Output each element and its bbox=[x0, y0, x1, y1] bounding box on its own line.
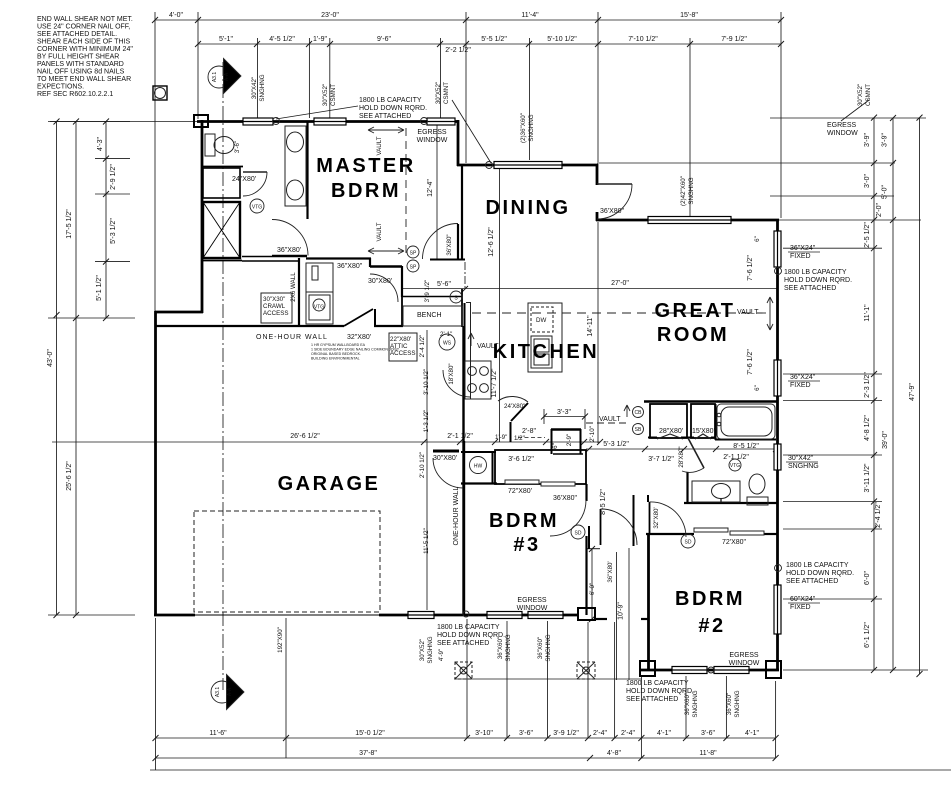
svg-text:6'-0": 6'-0" bbox=[589, 583, 596, 595]
bench west wall bbox=[401, 289, 403, 327]
svg-text:30"X42": 30"X42" bbox=[788, 455, 814, 462]
window label 30x52 csmnt rotated B bbox=[435, 82, 450, 104]
DOORS bbox=[243, 172, 764, 545]
kitchen 3-3 ext verticals bbox=[543, 409, 545, 424]
left edge dims rotated bbox=[47, 137, 117, 491]
svg-text:7'-6 1/2": 7'-6 1/2" bbox=[747, 349, 754, 375]
master 12-4 extension line bbox=[436, 124, 438, 259]
stove burner 4 bbox=[480, 384, 489, 393]
bath sink oval bbox=[712, 484, 731, 499]
master door leaf 36x80 bbox=[272, 255, 307, 257]
door leaf 32x80 in one-hour wall bbox=[344, 309, 373, 326]
leader line to master window circle bbox=[276, 106, 358, 119]
window 36x60 bdrm3 south A bbox=[487, 612, 522, 619]
egress window bdrm3 bbox=[517, 597, 548, 612]
svg-text:36"X60": 36"X60" bbox=[684, 693, 691, 715]
kitchen counter top edge bbox=[466, 302, 471, 304]
WINDOWS bbox=[243, 118, 781, 674]
svg-text:VAULT: VAULT bbox=[376, 222, 383, 241]
exterior west jog wall bbox=[155, 311, 203, 314]
stove burner 1 bbox=[468, 367, 477, 376]
exterior garage west wall bbox=[154, 311, 157, 616]
hold-down circle bdrm2 window bbox=[708, 667, 714, 673]
svg-text:4'-1": 4'-1" bbox=[657, 730, 671, 737]
window 30x42 snghng master north A bbox=[243, 118, 273, 125]
svg-text:VTG: VTG bbox=[314, 305, 324, 311]
circle SD bdrm3 bbox=[571, 525, 585, 539]
left dim vertical lines bbox=[56, 122, 58, 616]
svg-text:2'-5 1/2": 2'-5 1/2" bbox=[864, 222, 871, 248]
svg-text:36"X60": 36"X60" bbox=[726, 693, 733, 715]
vault arrow master bottom bbox=[368, 248, 404, 254]
kitchen 3-3 dim line bbox=[544, 416, 585, 418]
svg-text:HOLD DOWN RQRD.: HOLD DOWN RQRD. bbox=[784, 277, 852, 284]
bdrm3 window labels rotated bbox=[419, 634, 552, 663]
svg-text:11'-1": 11'-1" bbox=[864, 304, 871, 322]
egress window bdrm2 bbox=[729, 652, 760, 667]
svg-text:3'-9 1/2": 3'-9 1/2" bbox=[424, 280, 431, 303]
svg-text:VTG: VTG bbox=[730, 463, 740, 469]
door 36x80 dining-hall: arc bbox=[423, 224, 459, 260]
exterior dining north wall bbox=[457, 164, 598, 167]
svg-text:ORIGINAL BASED BEDROCK.: ORIGINAL BASED BEDROCK. bbox=[311, 352, 361, 356]
door 30x80 laundry: arc bbox=[433, 458, 463, 488]
vault labels master bbox=[376, 136, 383, 241]
svg-text:A-A: A-A bbox=[224, 72, 230, 81]
svg-text:A-A: A-A bbox=[227, 687, 233, 696]
hold-down circle great room bbox=[775, 268, 782, 275]
svg-text:SHEAR EACH SIDE OF THIS: SHEAR EACH SIDE OF THIS bbox=[37, 39, 131, 46]
bath toilet bowl bbox=[749, 474, 765, 494]
window (2)42x60 dining south bbox=[648, 217, 731, 224]
svg-text:12'-4": 12'-4" bbox=[427, 179, 434, 197]
svg-text:5'-5 1/2": 5'-5 1/2" bbox=[481, 36, 507, 43]
bottom row A dims bbox=[209, 730, 759, 737]
svg-text:SNGHNG: SNGHNG bbox=[545, 634, 552, 661]
svg-text:ROOM: ROOM bbox=[657, 324, 729, 346]
left extension lines from wall bbox=[50, 121, 198, 123]
svg-text:8'-5 1/2": 8'-5 1/2" bbox=[600, 489, 607, 515]
bdrm3 east wall upper bbox=[585, 484, 587, 501]
bdrm3 closet bypass doors bbox=[505, 480, 575, 486]
svg-text:VAULT: VAULT bbox=[737, 309, 759, 316]
door 36x80 hall: arc bbox=[601, 509, 638, 545]
svg-text:36"X60": 36"X60" bbox=[537, 637, 544, 659]
svg-text:1800 LB CAPACITY: 1800 LB CAPACITY bbox=[626, 680, 689, 687]
circle WS hall bbox=[439, 334, 455, 350]
svg-text:30"X52": 30"X52" bbox=[322, 84, 329, 106]
exterior great room east wall bbox=[776, 219, 779, 671]
svg-text:EXPECTIONS.: EXPECTIONS. bbox=[37, 84, 84, 91]
svg-text:SP: SP bbox=[410, 251, 417, 257]
svg-text:END WALL SHEAR NOT MET.: END WALL SHEAR NOT MET. bbox=[37, 16, 133, 23]
bath vanity bbox=[692, 481, 740, 502]
entry 6-0 dim line bbox=[591, 549, 593, 619]
svg-text:A3.1: A3.1 bbox=[215, 687, 221, 698]
svg-text:ATTIC: ATTIC bbox=[390, 343, 408, 350]
bath/bdrm2 closet wall bbox=[646, 533, 694, 535]
svg-text:4'-8": 4'-8" bbox=[607, 750, 621, 757]
svg-text:2'-1 1/2": 2'-1 1/2" bbox=[447, 433, 473, 440]
svg-text:BDRM: BDRM bbox=[331, 180, 401, 202]
entry front wall stub right bbox=[641, 618, 649, 620]
hold down note great room bbox=[784, 269, 852, 292]
svg-text:3'-10": 3'-10" bbox=[475, 730, 493, 737]
svg-text:1 SIDE BOUNDARY EDGE NAILING C: 1 SIDE BOUNDARY EDGE NAILING COMMON JOIS… bbox=[311, 348, 400, 352]
hall dim extension x=427 bbox=[426, 330, 428, 610]
top extension lines bbox=[154, 12, 156, 312]
attic access box bbox=[389, 333, 417, 361]
svg-text:28'X80": 28'X80" bbox=[678, 446, 685, 467]
svg-text:23'-0": 23'-0" bbox=[321, 12, 339, 19]
master vanity counter bbox=[285, 126, 306, 206]
stove burner 2 bbox=[480, 367, 489, 376]
window label (2)36x60 snghng rotated bbox=[520, 113, 535, 143]
svg-text:SNGHNG: SNGHNG bbox=[427, 636, 434, 663]
fridge nook east wall bbox=[580, 429, 582, 454]
svg-text:ACCESS: ACCESS bbox=[390, 350, 415, 357]
svg-text:1'-3 1/2": 1'-3 1/2" bbox=[423, 410, 430, 433]
door 30x80 master closet: arc bbox=[370, 274, 398, 302]
bifold zigzag closet B bbox=[695, 434, 711, 439]
section marker A-A top: circle bbox=[208, 66, 230, 88]
garage door header line bbox=[194, 614, 380, 616]
one-hour wall garage east bbox=[462, 326, 464, 615]
top row2 dims bbox=[219, 36, 747, 54]
svg-text:6'-0": 6'-0" bbox=[864, 571, 871, 585]
svg-text:7'-10 1/2": 7'-10 1/2" bbox=[628, 36, 658, 43]
svg-text:BUILDING ENVIRONMENTAL: BUILDING ENVIRONMENTAL bbox=[311, 357, 360, 361]
svg-text:30"X52": 30"X52" bbox=[419, 639, 426, 661]
svg-text:SNGHNG: SNGHNG bbox=[688, 177, 695, 204]
svg-text:BDRM: BDRM bbox=[675, 588, 745, 610]
svg-text:SEE ATTACHED: SEE ATTACHED bbox=[437, 640, 489, 647]
vault arrow great room vertical bbox=[767, 297, 773, 330]
svg-text:3'-3": 3'-3" bbox=[557, 409, 571, 416]
svg-text:FIXED: FIXED bbox=[790, 253, 811, 260]
ticks on hall dim line bbox=[586, 446, 779, 452]
svg-text:6": 6" bbox=[754, 385, 761, 391]
exterior west wall bath bbox=[201, 120, 204, 313]
entry door leaf bbox=[600, 509, 602, 545]
svg-text:SP: SP bbox=[410, 265, 417, 271]
window 36x60 bdrm3 south B bbox=[528, 612, 563, 619]
svg-text:(2)42"X60": (2)42"X60" bbox=[680, 176, 687, 206]
garage 26-6 dim line bbox=[52, 441, 600, 443]
svg-text:32"X80': 32"X80' bbox=[653, 507, 660, 528]
svg-text:36'X80": 36'X80" bbox=[600, 208, 625, 215]
kitchen west counter line B bbox=[470, 302, 472, 360]
svg-text:36"X80": 36"X80" bbox=[337, 263, 363, 270]
laundry top wall bbox=[461, 451, 496, 453]
svg-text:5'-1": 5'-1" bbox=[219, 36, 233, 43]
svg-text:DINING: DINING bbox=[486, 197, 571, 219]
svg-text:4'-1": 4'-1" bbox=[745, 730, 759, 737]
svg-text:VTG: VTG bbox=[252, 205, 262, 211]
hold-down circle bdrm2 east bbox=[775, 565, 782, 572]
svg-text:36"X80': 36"X80' bbox=[277, 247, 301, 254]
svg-text:SEE ATTACHED: SEE ATTACHED bbox=[786, 578, 838, 585]
svg-text:1'-9": 1'-9" bbox=[313, 36, 327, 43]
circle CB entry bbox=[633, 407, 644, 418]
2x6 wall hall bbox=[298, 258, 300, 327]
entry hall west wall stub bbox=[588, 526, 590, 549]
svg-text:1 HR GYPSUM WALLBOARD EA: 1 HR GYPSUM WALLBOARD EA bbox=[311, 343, 366, 347]
label 30x42 snghng bath bbox=[786, 455, 819, 470]
bottom border line bbox=[150, 769, 951, 771]
window 36x24 fixed great room east lower bbox=[774, 360, 781, 396]
svg-text:30"X52": 30"X52" bbox=[857, 84, 864, 106]
hold down note top bbox=[359, 97, 427, 120]
svg-text:4'-0": 4'-0" bbox=[169, 12, 183, 19]
hold-down X box porch right bbox=[577, 662, 595, 679]
section cut dash-dot line through garage bbox=[222, 62, 224, 690]
svg-text:BENCH: BENCH bbox=[417, 312, 442, 319]
svg-text:5'-0": 5'-0" bbox=[882, 185, 889, 199]
svg-text:HOLD DOWN RQRD.: HOLD DOWN RQRD. bbox=[359, 105, 427, 112]
svg-text:2X6 WALL: 2X6 WALL bbox=[290, 272, 297, 302]
bottom tick slashes bbox=[153, 735, 779, 761]
fridge nook bottom bbox=[553, 453, 583, 455]
section marker labels bbox=[212, 72, 233, 698]
svg-text:2'-1 1/2": 2'-1 1/2" bbox=[723, 454, 749, 461]
svg-text:30"X80': 30"X80' bbox=[433, 455, 457, 462]
right tick slashes bbox=[871, 115, 923, 677]
svg-text:SNGHNG: SNGHNG bbox=[692, 690, 699, 717]
furnace inner lower rect bbox=[309, 295, 330, 320]
right dim vertical lines bbox=[873, 118, 875, 670]
svg-text:7'-6 1/2": 7'-6 1/2" bbox=[747, 255, 754, 281]
exterior garage south wall left bbox=[154, 614, 195, 617]
stove burner 3 bbox=[468, 384, 477, 393]
svg-text:SNGHNG: SNGHNG bbox=[259, 74, 266, 101]
svg-text:#3: #3 bbox=[513, 534, 540, 556]
exterior south wall garage-to-bdrm3 bbox=[379, 614, 408, 617]
dim ticks on 442 line bbox=[421, 439, 603, 445]
door 36x80 dining exterior: arc bbox=[597, 184, 632, 219]
svg-text:6'-1 1/2": 6'-1 1/2" bbox=[864, 622, 871, 648]
svg-text:3'-9": 3'-9" bbox=[864, 133, 871, 147]
svg-text:4'-3": 4'-3" bbox=[97, 137, 104, 151]
svg-text:18'X80": 18'X80" bbox=[448, 363, 455, 384]
exterior dining east wall upper bbox=[596, 164, 599, 185]
svg-text:MASTER: MASTER bbox=[316, 155, 415, 177]
svg-text:HOLD DOWN RQRD.: HOLD DOWN RQRD. bbox=[437, 632, 505, 639]
svg-text:(2)36"X60": (2)36"X60" bbox=[520, 113, 527, 143]
svg-text:72"X80': 72"X80' bbox=[508, 488, 532, 495]
toilet master: bowl bbox=[214, 137, 234, 154]
closet east wall bbox=[401, 266, 403, 297]
svg-text:43'-0": 43'-0" bbox=[47, 349, 54, 367]
svg-text:BY FULL HEIGHT SHEAR: BY FULL HEIGHT SHEAR bbox=[37, 54, 119, 61]
closet bottom wall bbox=[402, 296, 462, 298]
door 24x80 linen: arc bbox=[243, 172, 267, 196]
svg-text:USE 24" CORNER NAIL OFF,: USE 24" CORNER NAIL OFF, bbox=[37, 24, 130, 31]
hall top wall line a bbox=[242, 256, 272, 258]
window 30x52 csmnt master north B bbox=[314, 118, 346, 125]
svg-text:2'-4 1/2": 2'-4 1/2" bbox=[419, 335, 426, 358]
bath west wall lower bbox=[686, 472, 688, 504]
exterior bdrm3 south wall mid bbox=[521, 614, 529, 617]
window 36x60 bdrm2 south A bbox=[672, 667, 707, 674]
svg-text:36"X24": 36"X24" bbox=[790, 245, 816, 252]
bottom row B dims bbox=[359, 750, 717, 757]
one-hour wall garage north bbox=[155, 325, 344, 327]
svg-text:5'-10 1/2": 5'-10 1/2" bbox=[547, 36, 577, 43]
circle HW laundry bbox=[470, 457, 487, 474]
svg-text:SNGHNG: SNGHNG bbox=[734, 690, 741, 717]
toilet master: tank bbox=[205, 134, 215, 156]
svg-text:4'-5 1/2": 4'-5 1/2" bbox=[269, 36, 295, 43]
svg-text:VAULT: VAULT bbox=[376, 136, 383, 155]
label egress top right bbox=[827, 122, 858, 137]
top row tick slashes bbox=[152, 17, 784, 47]
exterior jog at master NE bbox=[457, 120, 460, 166]
svg-text:3'-6": 3'-6" bbox=[701, 730, 715, 737]
svg-text:60"X24": 60"X24" bbox=[790, 596, 816, 603]
dining west wall bbox=[461, 164, 463, 260]
svg-text:GARAGE: GARAGE bbox=[278, 473, 381, 495]
kitchen 3-3 ext ticks bbox=[541, 414, 588, 420]
hold down note bdrm2 east bbox=[786, 562, 854, 585]
svg-text:WINDOW: WINDOW bbox=[729, 660, 760, 667]
svg-text:KITCHEN: KITCHEN bbox=[493, 341, 599, 363]
svg-text:3'-11 1/2": 3'-11 1/2" bbox=[864, 463, 871, 493]
circle VTG master bath bbox=[250, 199, 264, 213]
tub front wall bbox=[715, 439, 776, 441]
linen closet bbox=[203, 168, 240, 198]
exterior dining south wall bbox=[596, 219, 779, 222]
svg-text:24'X80": 24'X80" bbox=[504, 403, 525, 410]
door 36x80 bdrm3: arc bbox=[550, 500, 586, 536]
master sink 1 bbox=[287, 132, 304, 152]
svg-text:2'-9": 2'-9" bbox=[566, 434, 573, 446]
svg-text:CSMNT: CSMNT bbox=[443, 82, 450, 104]
svg-text:30"X52": 30"X52" bbox=[435, 82, 442, 104]
svg-text:2'-10": 2'-10" bbox=[589, 426, 596, 442]
svg-text:11'-5 1/2": 11'-5 1/2" bbox=[423, 528, 430, 554]
svg-text:ONE-HOUR WALL: ONE-HOUR WALL bbox=[453, 486, 460, 545]
wall below shower bbox=[202, 260, 242, 262]
leader 30x52 csmnt #2 bbox=[841, 100, 869, 121]
svg-text:2'-8": 2'-8" bbox=[522, 428, 536, 435]
bdrm2 closet wall right stub bbox=[764, 533, 778, 535]
svg-text:28"X80': 28"X80' bbox=[659, 428, 683, 435]
hall dim line y449 bbox=[586, 448, 781, 450]
shower enclosure bbox=[203, 202, 240, 258]
svg-text:24"X80': 24"X80' bbox=[232, 176, 256, 183]
svg-text:2'-1": 2'-1" bbox=[440, 331, 452, 338]
hold down note bdrm2 south bbox=[626, 680, 694, 703]
window 30x52 csmnt master north C egress bbox=[427, 118, 455, 125]
svg-text:5'-6": 5'-6" bbox=[437, 281, 451, 288]
tub bdrm2 bath bbox=[717, 404, 775, 439]
svg-text:1800 LB CAPACITY: 1800 LB CAPACITY bbox=[784, 269, 847, 276]
window 60x24 fixed bdrm2 east bbox=[774, 585, 781, 634]
window 36x60 bdrm2 south B bbox=[714, 667, 749, 674]
svg-text:2'-10 1/2": 2'-10 1/2" bbox=[419, 452, 426, 478]
svg-text:1'-9": 1'-9" bbox=[495, 434, 507, 441]
svg-text:WINDOW: WINDOW bbox=[827, 130, 858, 137]
svg-text:8'-5 1/2": 8'-5 1/2" bbox=[733, 443, 759, 450]
window 30x52 hall south bbox=[408, 612, 434, 619]
exterior bdrm3 south wall right bbox=[562, 614, 579, 617]
svg-text:SNGHNG: SNGHNG bbox=[788, 463, 819, 470]
exterior dining east wall lower stub bbox=[596, 212, 599, 221]
bottom extension lines bbox=[155, 618, 157, 770]
pantry door arc bbox=[498, 396, 528, 402]
top row1 dims bbox=[169, 12, 698, 19]
door master bedroom 36x80: arc bbox=[272, 220, 308, 256]
kitchen sink double bbox=[531, 336, 552, 368]
master sink 2 bbox=[287, 180, 304, 200]
door 24x80 linen: leaf bbox=[243, 171, 267, 173]
svg-text:26'-6 1/2": 26'-6 1/2" bbox=[290, 433, 320, 440]
one-hour wall right of door bbox=[374, 325, 403, 327]
svg-text:72'X80": 72'X80" bbox=[722, 539, 747, 546]
svg-text:3'-9 1/2": 3'-9 1/2" bbox=[553, 730, 579, 737]
furnace divider bbox=[306, 291, 333, 293]
bdrm2 window labels rotated bbox=[684, 690, 741, 717]
bdrm2 SW corner post bbox=[640, 661, 655, 676]
right tick horizontals bbox=[770, 117, 926, 119]
svg-text:32"X80': 32"X80' bbox=[347, 334, 371, 341]
hall dims rotated column bbox=[419, 335, 445, 661]
svg-text:2'-4 1/2": 2'-4 1/2" bbox=[875, 502, 882, 528]
svg-text:SEE ATTACHED DETAIL.: SEE ATTACHED DETAIL. bbox=[37, 31, 117, 38]
leader line to hold-down at dining NW bbox=[452, 100, 491, 163]
hold-down circle bdrm3 window bbox=[463, 611, 469, 617]
vault dashed line great room bbox=[472, 312, 770, 314]
laundry pocket door bar bbox=[433, 450, 459, 453]
svg-text:30"X80': 30"X80' bbox=[368, 278, 392, 285]
dishwasher dashed bbox=[531, 307, 553, 332]
svg-text:5'-1 1/2": 5'-1 1/2" bbox=[96, 275, 103, 301]
entry 10-9 ext lines bbox=[616, 552, 618, 680]
exterior bdrm2 west wall bbox=[647, 534, 650, 671]
bdrm2 SE corner post bbox=[766, 661, 781, 678]
svg-text:1800 LB CAPACITY: 1800 LB CAPACITY bbox=[786, 562, 849, 569]
vault dashed line entry bbox=[586, 422, 630, 424]
svg-text:EGRESS: EGRESS bbox=[729, 652, 759, 659]
svg-text:4'-8 1/2": 4'-8 1/2" bbox=[864, 415, 871, 441]
svg-text:WINDOW: WINDOW bbox=[517, 605, 548, 612]
furnace cabinet outer bbox=[306, 263, 333, 324]
svg-text:TO MEET END WALL SHEAR: TO MEET END WALL SHEAR bbox=[37, 76, 131, 83]
door 28x80 entry diag leaf bbox=[688, 438, 704, 468]
svg-text:4'-9": 4'-9" bbox=[438, 649, 445, 661]
circle S bench bbox=[450, 291, 462, 303]
svg-text:15'X80": 15'X80" bbox=[692, 428, 717, 435]
shear note block bbox=[37, 16, 133, 98]
svg-text:27'-0": 27'-0" bbox=[611, 280, 629, 287]
svg-text:CSMNT: CSMNT bbox=[330, 84, 337, 106]
svg-text:25'-6 1/2": 25'-6 1/2" bbox=[66, 461, 73, 491]
svg-text:30"X30": 30"X30" bbox=[263, 296, 285, 303]
svg-text:SEE ATTACHED: SEE ATTACHED bbox=[359, 113, 411, 120]
circle SB entry bbox=[633, 424, 644, 435]
dining door leaf 36x80 bbox=[457, 224, 459, 259]
svg-text:2'-0": 2'-0" bbox=[876, 203, 883, 217]
toilet room south wall bbox=[202, 166, 243, 168]
bdrm3 north wall bbox=[461, 482, 497, 484]
vault arrow master top bbox=[368, 127, 404, 133]
svg-text:2'-2 1/2": 2'-2 1/2" bbox=[445, 47, 471, 54]
garage door dashed opening bbox=[194, 511, 380, 612]
kitchen west wall bbox=[464, 303, 466, 399]
fridge nook west wall bbox=[551, 429, 553, 454]
svg-text:36"X80': 36"X80' bbox=[607, 561, 614, 582]
